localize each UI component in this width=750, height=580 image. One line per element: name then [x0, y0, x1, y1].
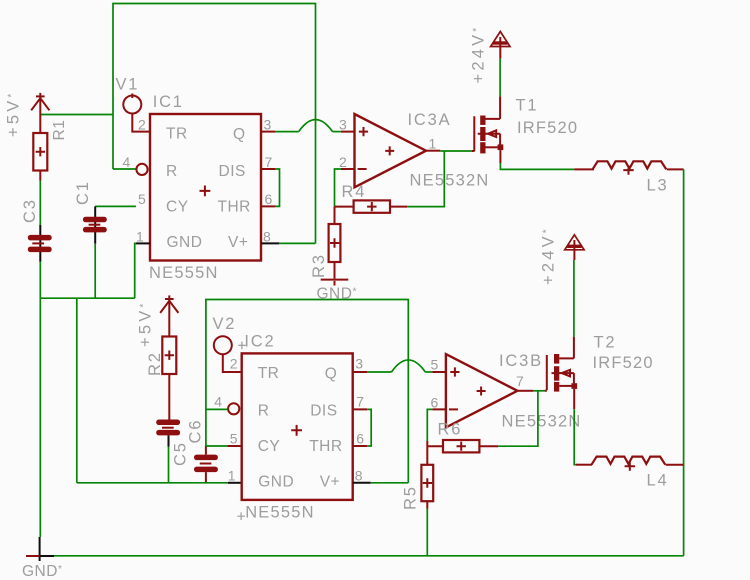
label IC1: [153, 93, 184, 111]
label C3 (vertical): [21, 198, 39, 223]
svg-text:6: 6: [431, 394, 439, 410]
wire pin6 to R6 node: [427, 409, 432, 441]
label NE555N IC2: [245, 503, 315, 521]
resistor R3: [329, 207, 341, 279]
label C5 (vertical): [172, 441, 190, 466]
svg-text:C1: C1: [74, 180, 92, 205]
voltage source V1: [123, 94, 150, 132]
label V2: [213, 315, 237, 333]
svg-text:R1: R1: [51, 120, 68, 141]
wire DIS to THR: [275, 169, 279, 206]
wire L3 down right side: [683, 169, 685, 555]
svg-text:R: R: [258, 403, 270, 420]
IC3A output stub: [426, 150, 440, 152]
wire IC1 feedback loop top (R/V+ net): [113, 4, 316, 244]
resistor R6: [427, 440, 498, 452]
svg-text:4: 4: [214, 393, 222, 409]
bottom ground rail: [54, 555, 684, 557]
inductor L4: [576, 457, 684, 471]
label IRF520 T2: [593, 354, 654, 372]
svg-text:7: 7: [265, 154, 273, 170]
svg-text:R5: R5: [402, 485, 420, 510]
IC3B pin numbers: [431, 357, 525, 411]
label T1: [516, 97, 539, 115]
svg-text:NE555N: NE555N: [245, 503, 315, 521]
svg-text:T1: T1: [516, 97, 539, 115]
svg-text:DIS: DIS: [219, 163, 246, 180]
wire pin2 to R4 node: [335, 169, 341, 207]
wire hop to opamp pin3: [333, 131, 341, 133]
IC1 DIS-THR stubs: [261, 169, 275, 206]
IC2 pin3 Q stub: [353, 371, 367, 373]
svg-text:6: 6: [265, 191, 273, 207]
svg-text:5: 5: [431, 357, 439, 373]
svg-text:1: 1: [228, 468, 236, 484]
svg-text:2: 2: [230, 356, 238, 372]
wire V+ to loop: [279, 242, 316, 244]
IC1 pin4 inversion bubble: [136, 164, 147, 175]
label NE5532N IC3A: [410, 171, 490, 189]
wire C5 to ch2 gnd rail: [168, 447, 170, 483]
wire R5 to bottom rail: [426, 509, 428, 556]
label IC3A: [408, 111, 452, 129]
svg-text:TR: TR: [258, 365, 280, 382]
wire pin1 to gnd rail: [135, 243, 136, 298]
svg-text:7: 7: [516, 373, 524, 389]
op-amp IC1 NE555N box: [150, 114, 261, 261]
svg-text:R2: R2: [146, 351, 164, 376]
capacitor C1: [83, 206, 107, 243]
svg-text:CY: CY: [166, 198, 189, 215]
label IC3B: [499, 352, 543, 370]
capacitor C5: [156, 420, 180, 447]
IC1 pin numbers left: [123, 116, 147, 244]
IC2 origin cross: [291, 425, 302, 436]
svg-text:V2: V2: [213, 315, 237, 333]
svg-text:R: R: [166, 163, 178, 180]
IC2 DIS-THR stubs: [353, 409, 367, 446]
IC2 pin5 stub: [227, 445, 241, 447]
svg-text:+24V*: +24V*: [540, 226, 558, 285]
wire C1 to gnd rail: [94, 244, 96, 299]
inductor L3: [574, 161, 683, 174]
ch2 gnd rail: [77, 482, 228, 484]
svg-text:5: 5: [138, 191, 146, 207]
wire DIS2 to THR2: [367, 409, 371, 446]
svg-text:7: 7: [356, 393, 364, 409]
IC1 pin1 GND stub (net overlap): [136, 242, 150, 244]
label C6 (vertical): [187, 419, 205, 444]
svg-text:Q: Q: [233, 126, 246, 143]
capacitor C6: [194, 446, 218, 483]
wire T2 source to L4: [574, 409, 576, 465]
svg-text:IC3A: IC3A: [408, 111, 452, 129]
label +5V* (vertical): [5, 90, 23, 137]
wire left drop to bottom rail: [39, 298, 41, 537]
label L4: [647, 471, 669, 489]
label GND* bottom: [22, 563, 62, 580]
svg-text:GND: GND: [167, 234, 203, 251]
IC3A pin numbers: [339, 116, 437, 170]
svg-text:TR: TR: [166, 125, 188, 142]
label NE5532N IC3B: [502, 412, 582, 430]
svg-text:THR: THR: [218, 198, 251, 215]
wire T2 drain to +24V: [573, 260, 575, 337]
svg-text:Q: Q: [325, 365, 338, 382]
svg-text:V1: V1: [116, 76, 140, 94]
svg-text:6: 6: [356, 430, 364, 446]
IC2 pin numbers left: [214, 356, 238, 484]
label +24V* 2 (vertical): [540, 226, 558, 285]
svg-text:R6: R6: [438, 421, 463, 439]
label +5V* 2 (vertical): [137, 300, 155, 347]
label +24V* (vertical): [470, 25, 488, 84]
label NE555N IC1: [149, 264, 219, 282]
IC1 pin3 Q stub: [261, 131, 275, 133]
svg-text:3: 3: [339, 116, 347, 132]
svg-text:C3: C3: [21, 198, 39, 223]
label C1 (vertical): [74, 180, 92, 205]
IC2 origin mark near label: [238, 342, 246, 350]
IC2 pin numbers right: [355, 356, 365, 484]
IC1 inner pin names: [166, 125, 251, 251]
svg-text:IC1: IC1: [153, 93, 184, 111]
label R6: [438, 421, 463, 439]
capacitor C3: [28, 225, 52, 262]
resistor R5: [421, 446, 433, 508]
svg-text:NE555N: NE555N: [149, 264, 219, 282]
svg-text:2: 2: [339, 154, 347, 170]
svg-text:1: 1: [429, 136, 437, 152]
label IRF520 T1: [517, 119, 578, 137]
svg-text:3: 3: [264, 116, 272, 132]
IC1 pin8 V+ stub (net overlap): [261, 242, 279, 244]
transistor T1 IRF520: [472, 96, 503, 163]
gnd rail upper-left: [40, 297, 134, 299]
svg-text:L4: L4: [647, 471, 669, 489]
svg-text:DIS: DIS: [310, 403, 337, 420]
svg-text:+24V*: +24V*: [470, 25, 488, 84]
label R5 (vertical): [402, 485, 420, 510]
IC2 pin1 GND stub (net overlap): [228, 482, 242, 484]
svg-text:4: 4: [123, 154, 131, 170]
svg-text:V+: V+: [228, 234, 248, 251]
svg-text:NE5532N: NE5532N: [410, 171, 490, 189]
svg-text:NE5532N: NE5532N: [502, 412, 582, 430]
label L3: [647, 176, 669, 194]
wire V+2 to loop: [371, 482, 409, 484]
wire pin5 CY2 to C6: [206, 445, 228, 447]
svg-text:8: 8: [263, 228, 271, 244]
wire hop to opamp pin5: [425, 371, 432, 373]
resistor R1: [33, 133, 47, 181]
svg-text:3: 3: [355, 356, 363, 372]
label V1: [116, 76, 140, 94]
wire output to T1 gate: [440, 150, 472, 152]
resistor R4: [335, 200, 408, 212]
supply +5V symbol 1: [31, 93, 49, 133]
op-amp IC3A: [355, 114, 427, 187]
wire R1 to C3: [39, 181, 41, 225]
svg-text:C6: C6: [187, 419, 205, 444]
resistor R2: [162, 337, 176, 420]
svg-text:1: 1: [136, 228, 144, 244]
wire Q2 to hop: [367, 371, 391, 373]
label T2: [594, 334, 617, 352]
label R1 (vertical): [51, 120, 68, 141]
wire R4 to output node: [407, 151, 444, 207]
wire loop to pin4 bubble IC2: [206, 408, 228, 410]
supply +24V symbol 1: [491, 32, 510, 59]
IC2 inner pin names: [258, 365, 343, 491]
op-amp IC3B: [446, 354, 518, 427]
supply +5V symbol 2: [160, 295, 178, 336]
svg-text:2: 2: [138, 116, 146, 132]
label IC2: [244, 332, 275, 350]
ground symbol bottom-left: [26, 537, 54, 561]
svg-text:R3: R3: [310, 253, 328, 278]
wire +5V to R1/loop junction: [40, 114, 113, 116]
IC2 pin8 V+ stub (net overlap): [353, 482, 371, 484]
timer IC2 NE555N box: [242, 353, 353, 500]
svg-text:T2: T2: [594, 334, 617, 352]
svg-text:R4: R4: [342, 183, 367, 201]
wire loop to pin4 bubble: [113, 168, 136, 170]
wire T1 source to L3: [500, 163, 574, 169]
svg-text:IC2: IC2: [244, 332, 275, 350]
IC1 pin numbers right: [263, 116, 273, 244]
svg-text:C5: C5: [172, 441, 190, 466]
svg-text:GND: GND: [258, 473, 294, 490]
wire hop over loop 2: [392, 360, 426, 372]
voltage source V2: [214, 336, 242, 372]
wire T1 drain to +24V: [499, 59, 501, 96]
label R2 (vertical): [146, 351, 164, 376]
IC1 origin cross: [200, 186, 211, 197]
svg-text:CY: CY: [258, 438, 281, 455]
wire Q to hop: [275, 131, 298, 133]
wire C3 to gnd rail: [39, 262, 41, 298]
IC3B output stub: [517, 390, 533, 392]
IC3A pin stubs: [341, 132, 355, 169]
svg-text:8: 8: [355, 468, 363, 484]
svg-text:GND*: GND*: [22, 563, 62, 580]
wire R6 to output node: [498, 391, 538, 446]
IC3B pin stubs: [432, 372, 446, 409]
transistor T2 IRF520: [545, 337, 578, 410]
wire mid drop to ch2 gnd rail: [76, 298, 78, 483]
svg-text:5: 5: [230, 430, 238, 446]
svg-text:THR: THR: [309, 438, 342, 455]
supply +24V symbol 2: [565, 235, 584, 260]
svg-text:IC3B: IC3B: [499, 352, 543, 370]
wire hop over loop: [299, 120, 333, 132]
svg-text:IRF520: IRF520: [517, 119, 578, 137]
wire pin5 CY to C1: [95, 205, 136, 207]
svg-text:V+: V+: [320, 473, 340, 490]
wire IC2 feedback loop (R/V+ net): [206, 300, 408, 483]
wire output2 to T2 gate: [533, 390, 545, 392]
IC2 pin4 inversion bubble: [228, 403, 239, 414]
label GND* ch1: [317, 285, 357, 302]
label R3 (vertical): [310, 253, 328, 278]
svg-text:L3: L3: [647, 176, 669, 194]
IC2 origin mark near NE555N: [237, 512, 245, 520]
ground GND* symbol ch1: [321, 280, 349, 286]
svg-text:IRF520: IRF520: [593, 354, 654, 372]
label R4: [342, 183, 367, 201]
